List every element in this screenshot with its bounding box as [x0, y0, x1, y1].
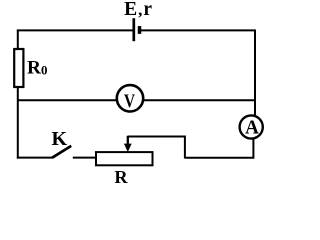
wire bottom-left to switch — [17, 157, 52, 159]
wire ammeter bottom to corner — [185, 139, 254, 158]
svg-text:K: K — [52, 128, 68, 150]
ammeter A — [240, 115, 263, 138]
battery E,r — [134, 18, 140, 41]
switch K blade — [52, 146, 71, 158]
rheostat R body — [96, 152, 153, 165]
svg-text:R: R — [114, 167, 128, 185]
wire voltmeter right — [143, 99, 255, 101]
resistor R0 — [14, 49, 23, 87]
wire left vertical lower — [17, 87, 19, 159]
wire switch to rheostat — [73, 157, 96, 159]
svg-text:A: A — [245, 117, 259, 139]
wire rheostat wiper step — [128, 137, 185, 159]
svg-text:V: V — [124, 91, 136, 112]
wire left vertical upper — [17, 30, 19, 51]
svg-text:E,r: E,r — [124, 0, 153, 20]
voltmeter V — [117, 85, 143, 111]
wire top-left (battery negative to left vertical) — [17, 29, 134, 31]
wire right vertical upper — [254, 30, 256, 116]
rheostat wiper arrow — [124, 136, 132, 152]
wire top-right (battery positive to right vertical) — [139, 29, 255, 31]
wire voltmeter left — [18, 99, 117, 101]
